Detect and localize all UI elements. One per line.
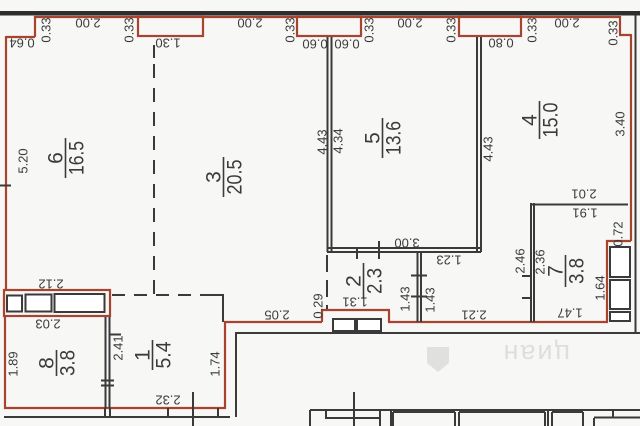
svg-text:3.40: 3.40 [613, 111, 628, 136]
svg-text:7: 7 [545, 265, 568, 277]
svg-text:1.74: 1.74 [208, 351, 223, 376]
svg-text:5: 5 [362, 132, 385, 144]
svg-text:1.64: 1.64 [593, 275, 608, 300]
svg-text:2.00: 2.00 [237, 16, 262, 31]
svg-text:5.4: 5.4 [153, 341, 176, 368]
svg-text:0.33: 0.33 [122, 17, 137, 42]
svg-text:1.91: 1.91 [572, 206, 597, 221]
svg-text:2.41: 2.41 [111, 335, 126, 360]
svg-text:2.21: 2.21 [461, 308, 486, 323]
svg-text:1.31: 1.31 [342, 295, 367, 310]
svg-text:3.00: 3.00 [394, 236, 419, 251]
svg-text:2.00: 2.00 [554, 16, 579, 31]
svg-text:16.5: 16.5 [66, 141, 89, 175]
svg-text:13.6: 13.6 [383, 121, 406, 155]
svg-text:0.33: 0.33 [444, 17, 459, 42]
svg-text:1.47: 1.47 [557, 306, 582, 321]
svg-text:0.33: 0.33 [39, 17, 54, 42]
svg-text:1.43: 1.43 [423, 287, 438, 312]
svg-text:0.33: 0.33 [606, 20, 621, 45]
svg-text:0.29: 0.29 [311, 293, 326, 318]
svg-text:3.8: 3.8 [57, 350, 80, 376]
svg-text:3: 3 [203, 171, 226, 183]
svg-text:0.33: 0.33 [283, 17, 298, 42]
svg-text:1.30: 1.30 [155, 36, 180, 51]
svg-text:4.34: 4.34 [331, 128, 346, 153]
svg-text:1.23: 1.23 [436, 253, 461, 268]
svg-text:1.89: 1.89 [6, 351, 21, 376]
svg-text:2.36: 2.36 [533, 249, 548, 274]
svg-text:6: 6 [45, 152, 68, 164]
svg-text:0.33: 0.33 [362, 17, 377, 42]
svg-text:2.12: 2.12 [38, 277, 63, 292]
svg-text:0.64: 0.64 [9, 36, 34, 51]
svg-text:4.43: 4.43 [315, 129, 330, 154]
svg-text:15.0: 15.0 [540, 103, 563, 138]
svg-text:4.43: 4.43 [481, 136, 496, 161]
svg-text:2.05: 2.05 [264, 308, 289, 323]
svg-text:1: 1 [132, 349, 155, 361]
svg-text:2.32: 2.32 [155, 393, 180, 408]
svg-text:0.60: 0.60 [334, 37, 359, 52]
svg-text:1.43: 1.43 [398, 286, 413, 311]
svg-text:2.3: 2.3 [364, 268, 387, 294]
svg-text:2.00: 2.00 [397, 16, 422, 31]
svg-text:8: 8 [36, 357, 59, 369]
svg-text:5.20: 5.20 [16, 148, 31, 173]
svg-text:2: 2 [343, 275, 366, 287]
svg-text:циан: циан [502, 339, 570, 369]
svg-text:0.72: 0.72 [611, 221, 626, 246]
svg-text:2.03: 2.03 [35, 317, 60, 332]
svg-text:20.5: 20.5 [224, 160, 247, 195]
svg-text:2.01: 2.01 [571, 187, 596, 202]
svg-text:3.8: 3.8 [566, 258, 589, 284]
svg-text:4: 4 [519, 114, 542, 126]
svg-text:2.46: 2.46 [513, 248, 528, 273]
svg-text:0.60: 0.60 [302, 37, 327, 52]
svg-text:0.80: 0.80 [488, 36, 513, 51]
svg-text:2.00: 2.00 [75, 16, 100, 31]
svg-text:0.33: 0.33 [525, 17, 540, 42]
